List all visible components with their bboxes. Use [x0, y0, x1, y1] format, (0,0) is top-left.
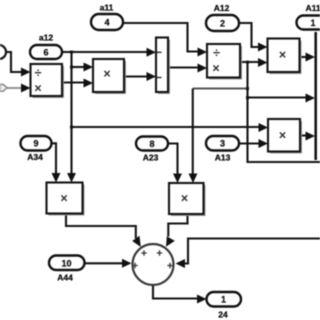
svg-text:×: ×: [279, 48, 286, 62]
svg-text:8: 8: [149, 139, 154, 149]
svg-text:A12: A12: [214, 3, 230, 13]
svg-text:10: 10: [61, 258, 71, 268]
svg-text:×: ×: [34, 82, 41, 96]
svg-text:a12: a12: [39, 33, 53, 43]
svg-text:×: ×: [60, 192, 67, 206]
svg-text:6: 6: [43, 47, 48, 57]
svg-text:×: ×: [181, 192, 188, 206]
svg-text:1: 1: [221, 295, 226, 305]
svg-text:4: 4: [104, 18, 109, 28]
svg-text:2: 2: [220, 19, 225, 29]
svg-text:×: ×: [103, 67, 110, 81]
svg-text:A13: A13: [215, 153, 231, 163]
svg-text:×: ×: [279, 129, 286, 143]
svg-text:9: 9: [33, 139, 38, 149]
svg-text:÷: ÷: [213, 46, 220, 60]
svg-text:3: 3: [220, 139, 225, 149]
svg-text:÷: ÷: [35, 66, 42, 80]
svg-text:a11: a11: [100, 3, 114, 13]
svg-text:24: 24: [218, 310, 228, 320]
svg-text:1: 1: [310, 18, 315, 28]
svg-text:A11: A11: [305, 3, 320, 13]
svg-text:A23: A23: [143, 153, 159, 163]
svg-text:×: ×: [212, 62, 219, 76]
svg-text:A34: A34: [27, 152, 43, 162]
svg-text:A44: A44: [57, 273, 73, 283]
